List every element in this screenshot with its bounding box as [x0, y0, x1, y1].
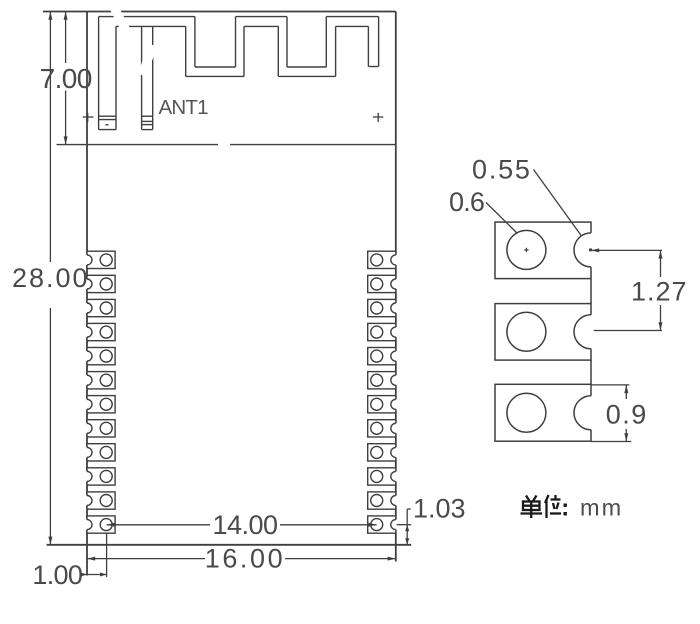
- dimension 7.00 (antenna area height): [65, 12, 67, 145]
- antenna feed bar 2 with pad: [142, 26, 153, 129]
- svg-text:16.00: 16.00: [205, 544, 286, 574]
- pad left 7: [86, 396, 116, 413]
- pad right 7: [368, 396, 397, 413]
- svg-text:1.00: 1.00: [32, 560, 82, 590]
- pad left 10: [86, 468, 116, 485]
- pad left 3: [86, 299, 116, 316]
- detail pad1 hole center mark: [524, 248, 528, 252]
- pad left 8: [86, 420, 116, 437]
- pad left 5: [86, 348, 116, 365]
- svg-text:14.00: 14.00: [212, 510, 277, 540]
- pad right 4: [368, 323, 397, 340]
- svg-text:7.00: 7.00: [40, 63, 92, 94]
- pad left 9: [86, 444, 116, 461]
- antenna area boundary line: [57, 144, 396, 146]
- dimension 28.00 (module height): [49, 12, 51, 545]
- svg-text:0.9: 0.9: [606, 400, 648, 430]
- dimension 1.03 (last pad center to bottom edge): [397, 509, 412, 545]
- svg-text:28.00: 28.00: [12, 263, 90, 293]
- dimension 16.00 (module width): [87, 558, 396, 560]
- antenna feed bar 1 with pad: [99, 17, 116, 130]
- fiducial cross right: [373, 113, 384, 122]
- fiducial cross left: [83, 113, 94, 122]
- pad left 12: [86, 516, 116, 533]
- dimension 14.00 (pad row spacing): [107, 524, 377, 526]
- dimension 1.00 (edge to first pad center): [83, 533, 107, 577]
- pad right 11: [368, 492, 397, 509]
- pad left 1: [86, 251, 116, 268]
- pad left 11: [86, 492, 116, 509]
- pad left 4: [86, 323, 116, 340]
- drawing break marks (white slashes): [108, 3, 231, 152]
- antenna ANT1 meander track: [99, 17, 379, 77]
- pad right 10: [368, 468, 397, 485]
- unit label 单位: mm: [521, 495, 562, 518]
- svg-text:1.27: 1.27: [631, 277, 688, 307]
- annotation 0.55 (castellation) with leader: [534, 170, 582, 237]
- svg-text:1.03: 1.03: [413, 494, 466, 524]
- module body outline: [43, 12, 411, 576]
- dimension 0.9 (pad width): [591, 385, 631, 442]
- pad right 8: [368, 420, 397, 437]
- detail pad 3: [495, 384, 592, 441]
- dimension 1.27 (pad pitch): [591, 250, 662, 330]
- pad right 6: [368, 372, 397, 389]
- pad right 2: [368, 275, 397, 292]
- svg-text:0.6: 0.6: [449, 187, 484, 217]
- pad right 1: [368, 251, 397, 268]
- pad right 9: [368, 444, 397, 461]
- detail module edge segments: [590, 279, 592, 385]
- svg-text:ANT1: ANT1: [159, 96, 209, 119]
- pad right 12: [368, 516, 397, 533]
- pad right 5: [368, 348, 397, 365]
- svg-text:0.55: 0.55: [472, 155, 532, 185]
- detail pad 2: [495, 304, 592, 361]
- pad left 6: [86, 372, 116, 389]
- svg-text:mm: mm: [580, 495, 623, 521]
- pad left 2: [86, 275, 116, 292]
- pad right 3: [368, 299, 397, 316]
- annotation 0.6 (hole dia) with leader: [486, 203, 518, 234]
- detail pad 1: [495, 222, 592, 279]
